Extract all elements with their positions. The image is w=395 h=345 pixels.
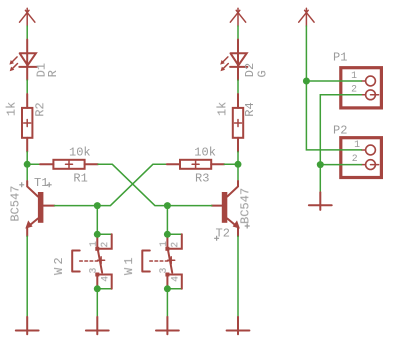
svg-text:3: 3 — [158, 268, 169, 274]
svg-text:1: 1 — [354, 139, 360, 150]
svg-text:G: G — [255, 70, 269, 77]
supply VCC arrow col D — [230, 8, 245, 26]
wire R3 to T1 base (diagonal) — [97, 164, 167, 205]
wire W1 to ground — [166, 289, 168, 317]
wire P1 pin2 to P2 pin1 — [320, 95, 361, 165]
svg-text:W1: W1 — [122, 254, 136, 275]
node B junction — [94, 202, 101, 209]
svg-text:R: R — [46, 70, 60, 77]
wire T1 emitter to ground — [26, 236, 28, 317]
svg-text:R3: R3 — [195, 171, 209, 185]
svg-text:2: 2 — [99, 242, 110, 248]
transistor T2 BC547 — [212, 181, 240, 236]
svg-text:2: 2 — [352, 153, 358, 164]
wire VCC to D1 — [26, 26, 28, 40]
svg-text:1k: 1k — [215, 102, 229, 116]
wire D1 to R2 — [26, 80, 28, 94]
transistor T1 BC547 — [25, 181, 54, 236]
switch W2 — [72, 234, 112, 288]
junction W2 top — [94, 231, 101, 238]
svg-text:2: 2 — [351, 84, 357, 95]
switch W1 — [142, 234, 182, 288]
svg-text:BC547: BC547 — [238, 188, 252, 224]
svg-text:R1: R1 — [73, 171, 87, 185]
svg-text:3: 3 — [88, 268, 99, 274]
LED D1 — [9, 40, 36, 81]
wire node A down to T1 — [26, 164, 28, 181]
svg-text:10k: 10k — [69, 145, 91, 159]
svg-text:BC547: BC547 — [9, 186, 23, 222]
svg-text:R2: R2 — [33, 102, 47, 116]
svg-text:4: 4 — [99, 276, 110, 282]
wire T2 emitter to ground — [237, 236, 239, 317]
wire T2 base to node D — [167, 205, 211, 207]
node A junction — [24, 161, 31, 168]
svg-text:R4: R4 — [243, 102, 257, 116]
wire VCC rail — [306, 26, 361, 150]
LED D2 — [220, 40, 247, 81]
ground T1 — [16, 317, 39, 334]
junction rail P1 — [303, 78, 310, 85]
wire rail to P2 pin2 — [320, 164, 361, 166]
wire node C down to T2 — [237, 164, 239, 181]
origin cross BC547 T2 — [245, 224, 250, 229]
resistor R4 — [233, 94, 243, 152]
resistor R2 — [22, 94, 32, 152]
svg-text:T1: T1 — [34, 176, 48, 190]
wire R3 to node C — [224, 163, 238, 165]
junction W1 bottom — [164, 285, 171, 292]
junction rail P2 — [317, 161, 324, 168]
ground rail — [309, 192, 332, 210]
wire D2 to R4 — [237, 80, 239, 94]
svg-text:1k: 1k — [5, 102, 19, 116]
node C junction — [235, 161, 242, 168]
connector P2 — [341, 138, 382, 178]
resistor R1 — [40, 160, 98, 169]
supply VCC arrow col A — [20, 8, 35, 26]
wire node B down to W2 — [96, 206, 98, 235]
svg-text:P1: P1 — [333, 51, 347, 65]
origin cross BC547 T1 — [19, 182, 24, 187]
wire R1 to T2 base (diagonal) — [98, 164, 167, 205]
wire R2 to node A — [26, 152, 28, 165]
wire R4 to node C — [237, 152, 239, 165]
ground T2 — [227, 317, 250, 334]
origin cross T2 — [214, 236, 219, 241]
ground W2 — [86, 317, 109, 334]
resistor R3 — [167, 160, 225, 169]
svg-text:1: 1 — [351, 70, 357, 81]
wire node D down to W1 — [166, 206, 168, 235]
svg-text:10k: 10k — [194, 145, 216, 159]
wire T1 base to node B — [55, 205, 98, 207]
svg-text:4: 4 — [170, 276, 181, 282]
wire VCC to D2 — [237, 26, 239, 40]
wire W2 to ground — [96, 289, 98, 317]
svg-text:P2: P2 — [333, 124, 347, 138]
wire node A to R1 — [27, 163, 40, 165]
origin cross T1 — [47, 182, 52, 187]
svg-text:1: 1 — [158, 241, 169, 247]
ground W1 — [156, 317, 179, 334]
svg-text:W2: W2 — [52, 254, 66, 275]
node D junction — [164, 202, 171, 209]
connector P1 — [341, 68, 382, 108]
junction W2 bottom — [94, 285, 101, 292]
svg-text:2: 2 — [170, 242, 181, 248]
supply VCC arrow rail — [299, 8, 314, 26]
junction W1 top — [164, 231, 171, 238]
svg-text:1: 1 — [88, 241, 99, 247]
wire rail to P1 pin1 — [306, 80, 361, 82]
wire rail to ground — [319, 165, 321, 193]
